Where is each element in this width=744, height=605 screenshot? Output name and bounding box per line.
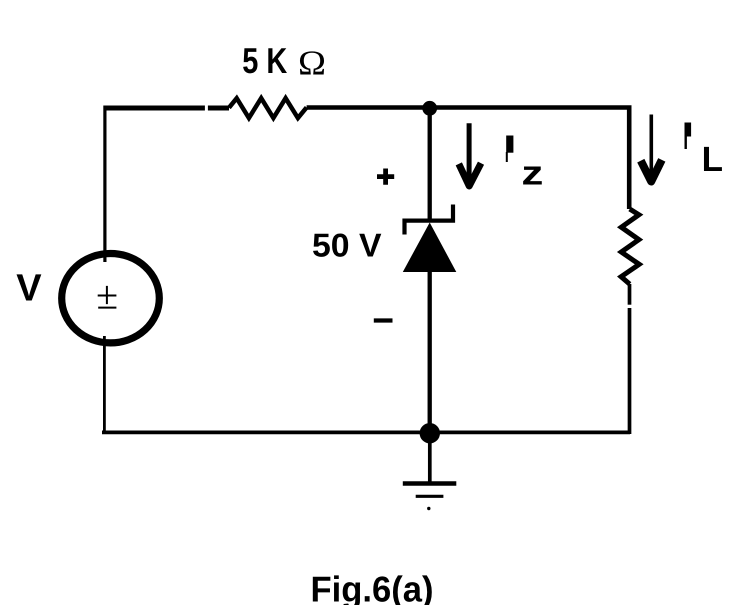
ground stem: [428, 433, 432, 482]
wire left vertical top: [103, 106, 106, 263]
ground dot: [427, 507, 430, 510]
ground bar 1: [403, 481, 457, 486]
label minus sign: [374, 318, 393, 322]
label I of Iz: [506, 136, 513, 153]
wire bottom horizontal: [102, 431, 630, 435]
zener diode D1 triangle: [403, 223, 457, 273]
wire top-right horizontal and right vertical to load resistor: [307, 108, 630, 210]
current arrow Iz: [467, 123, 472, 186]
svg-text:5 K: 5 K: [242, 40, 287, 81]
voltage source V circle: [62, 254, 160, 343]
resistor RL load zigzag: [621, 209, 639, 284]
wire zener bottom vertical: [428, 271, 432, 432]
label plus sign: [377, 169, 394, 185]
voltage source plus-minus symbol: [98, 286, 117, 308]
wire right vertical lower segment: [628, 308, 632, 434]
wire left vertical bottom: [103, 336, 106, 433]
wire top segment after gap: [208, 106, 229, 111]
label I of IL: [685, 123, 692, 137]
current arrow IL: [649, 115, 653, 181]
svg-text:50 V: 50 V: [312, 227, 382, 264]
node top junction dot: [422, 101, 437, 116]
svg-text:Fig.6(a): Fig.6(a): [311, 569, 434, 605]
wire zener top vertical: [428, 108, 432, 221]
svg-text:Ω: Ω: [298, 44, 326, 83]
wire top-left horizontal segment: [104, 106, 205, 111]
svg-text:V: V: [16, 267, 42, 309]
zener diode D1 cathode bar with hooks: [405, 205, 454, 235]
ground bar 2: [416, 495, 444, 498]
resistor R1 5 K ohm zigzag: [229, 98, 307, 118]
svg-text:L: L: [702, 140, 723, 179]
svg-text:z: z: [521, 155, 543, 193]
wire right vertical below load resistor: [628, 284, 632, 305]
node bottom junction dot: [420, 423, 440, 443]
